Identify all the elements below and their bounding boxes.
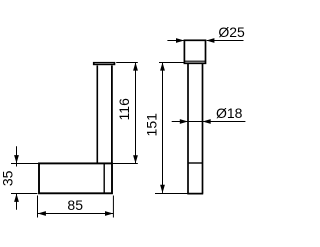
side view: bracket body: [39, 163, 112, 193]
dim 85: left arrowhead: [38, 211, 46, 216]
dim 35: lower dimension line: [16, 194, 18, 210]
side view: top cap disc (edge-on): [93, 62, 115, 65]
dim 116: upper arrowhead: [133, 62, 138, 70]
front view: bracket joint line: [188, 162, 203, 164]
svg-text:Ø18: Ø18: [216, 105, 243, 121]
dim 35: extension line top: [11, 163, 38, 165]
dim 85: dimension line: [38, 213, 113, 215]
svg-text:Ø25: Ø25: [218, 24, 245, 40]
dim diameter 25: left arrowhead: [176, 38, 184, 43]
svg-text:151: 151: [144, 113, 160, 137]
dim diameter 18: right arrowhead: [203, 119, 211, 124]
dim diameter 18: crossing line: [189, 121, 202, 123]
dim 116: extension line bottom: [113, 163, 138, 165]
front view: rod left edge: [187, 63, 189, 193]
dim 35: upper arrowhead: [14, 155, 19, 163]
front view: rod right edge: [202, 63, 204, 193]
dim 35: lower arrowhead: [14, 194, 19, 202]
side view: rod left edge: [96, 65, 98, 163]
dim 151: lower arrowhead: [160, 185, 165, 193]
side view: bracket inner edge line: [103, 163, 105, 193]
dim 85: right arrowhead: [105, 211, 113, 216]
svg-text:116: 116: [116, 98, 132, 121]
dim diameter 25: right tail line: [207, 40, 244, 42]
dim 151: extension line bottom: [155, 193, 188, 195]
dim diameter 18: right tail line: [203, 121, 245, 123]
dim 151: extension line top: [159, 62, 184, 64]
front view: cap outline: [184, 40, 205, 63]
front view: cap flange line: [185, 60, 205, 62]
dim 151: upper arrowhead: [160, 62, 165, 70]
dim 116: extension line top: [116, 62, 138, 64]
dim 35: extension line bottom: [11, 193, 37, 195]
dim 35: upper dimension line: [16, 146, 18, 166]
dim 116: lower arrowhead: [133, 155, 138, 163]
side view: rod right edge: [111, 65, 113, 162]
dim 116: dimension line: [135, 63, 137, 164]
dim diameter 25: left tail line: [167, 40, 183, 42]
svg-text:85: 85: [67, 197, 83, 213]
dim 85: extension line right: [112, 196, 114, 218]
dim diameter 18: left tail line: [172, 121, 188, 123]
dim 85: extension line left: [37, 196, 39, 218]
dim 151: dimension line: [162, 63, 164, 193]
svg-text:35: 35: [0, 170, 15, 186]
dim diameter 25: right arrowhead: [206, 38, 214, 43]
dim diameter 18: left arrowhead: [180, 119, 188, 124]
front view: rod bottom edge: [187, 193, 203, 195]
